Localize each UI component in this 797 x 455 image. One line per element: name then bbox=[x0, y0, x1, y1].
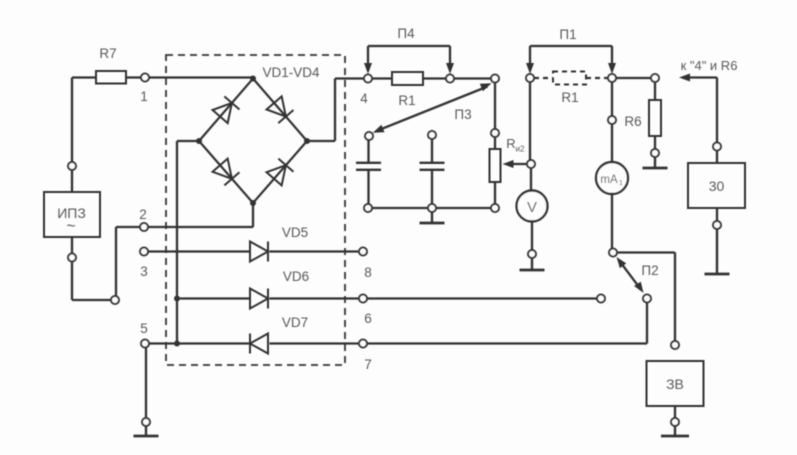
svg-text:4: 4 bbox=[360, 91, 368, 106]
svg-text:1: 1 bbox=[140, 89, 148, 104]
svg-text:VD7: VD7 bbox=[282, 315, 308, 330]
svg-text:7: 7 bbox=[364, 357, 372, 372]
svg-text:R1: R1 bbox=[398, 93, 415, 108]
svg-text:ЗВ: ЗВ bbox=[666, 376, 684, 392]
svg-text:8: 8 bbox=[364, 265, 372, 280]
svg-text:6: 6 bbox=[364, 311, 372, 326]
svg-text:V: V bbox=[527, 199, 537, 216]
svg-text:R6: R6 bbox=[624, 114, 641, 129]
svg-text:3: 3 bbox=[140, 264, 148, 279]
svg-text:П2: П2 bbox=[641, 263, 658, 278]
svg-text:2: 2 bbox=[139, 207, 147, 222]
svg-text:к "4" и R6: к "4" и R6 bbox=[681, 58, 738, 73]
svg-text:VD1-VD4: VD1-VD4 bbox=[262, 65, 320, 80]
svg-text:30: 30 bbox=[709, 178, 725, 194]
svg-text:П3: П3 bbox=[454, 107, 471, 122]
svg-text:mA: mA bbox=[600, 174, 618, 186]
svg-text:VD5: VD5 bbox=[282, 225, 308, 240]
svg-text:~: ~ bbox=[66, 218, 75, 235]
svg-text:1: 1 bbox=[619, 180, 623, 187]
svg-text:5: 5 bbox=[140, 321, 148, 336]
svg-text:R1: R1 bbox=[561, 90, 578, 105]
svg-text:и2: и2 bbox=[516, 145, 525, 154]
svg-text:R: R bbox=[506, 136, 515, 151]
svg-text:П4: П4 bbox=[397, 26, 415, 41]
svg-text:VD6: VD6 bbox=[283, 269, 309, 284]
svg-text:R7: R7 bbox=[99, 46, 116, 61]
svg-text:П1: П1 bbox=[559, 27, 576, 42]
